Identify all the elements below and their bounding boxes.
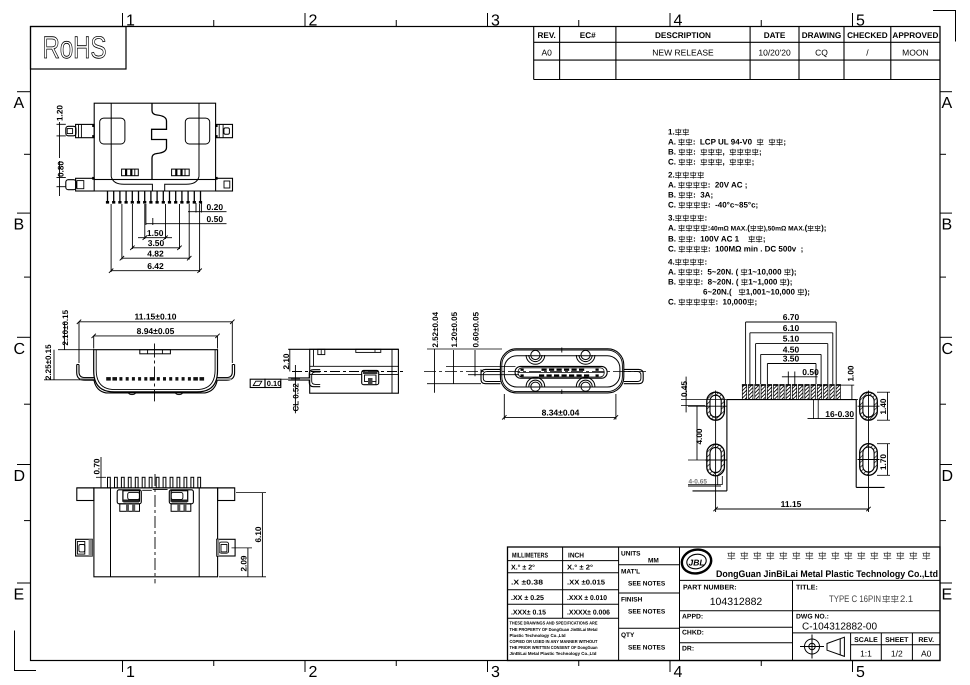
dimension 3.50: [131, 204, 133, 249]
svg-text:. DC 500v: . DC 500v: [760, 245, 797, 254]
front view center line: [154, 344, 156, 402]
bottom view body: [77, 487, 235, 489]
units column: [619, 564, 680, 566]
svg-text::: :: [693, 138, 696, 147]
svg-text:(: (: [747, 224, 750, 233]
footprint oval hole left bottom: [707, 444, 725, 476]
top view solder pins: [107, 191, 109, 202]
svg-text:6.70: 6.70: [783, 312, 800, 322]
svg-text:A.: A.: [668, 224, 676, 233]
svg-text:6.10: 6.10: [254, 526, 263, 542]
svg-text:5~20N: 5~20N: [707, 268, 731, 277]
svg-text:0.45: 0.45: [680, 381, 689, 397]
svg-text:2.10±0.15: 2.10±0.15: [61, 309, 70, 345]
dimension 8.34: [503, 394, 505, 420]
svg-text:);: );: [821, 224, 826, 233]
svg-text:1.20: 1.20: [56, 105, 65, 121]
svg-text:;: ;: [783, 138, 786, 147]
bottom view wing top left: [77, 488, 94, 501]
svg-text:A.: A.: [668, 138, 676, 147]
svg-text:A: A: [942, 95, 953, 112]
svg-text:(: (: [729, 288, 732, 297]
dimension 4.00: [696, 406, 698, 460]
svg-text:DWG NO.:: DWG NO.:: [796, 614, 829, 621]
front view terminals: [106, 377, 111, 381]
svg-text:16-0.30: 16-0.30: [825, 409, 854, 419]
svg-text:DongGuan JinBiLai Metal Plasti: DongGuan JinBiLai Metal Plastic Technolo…: [716, 569, 938, 580]
svg-text:.XX ± 0.25: .XX ± 0.25: [511, 595, 544, 602]
svg-text:1~10,000: 1~10,000: [748, 268, 782, 277]
svg-text:C-104312882-00: C-104312882-00: [802, 622, 877, 633]
bottom view wing top right: [218, 488, 235, 501]
svg-text:.XX ±0.015: .XX ±0.015: [567, 580, 605, 587]
svg-text:D: D: [942, 468, 954, 485]
bottom view tab left: [76, 539, 93, 556]
svg-text:0.50: 0.50: [207, 214, 224, 224]
scale sheet rev cells: [850, 633, 852, 661]
svg-text:D: D: [14, 468, 26, 485]
svg-text:4.: 4.: [668, 258, 675, 267]
svg-text:5.10: 5.10: [783, 334, 800, 344]
dimension 6.70: [746, 321, 837, 323]
mating face left hook: [481, 369, 500, 383]
svg-text:3.: 3.: [668, 214, 675, 223]
dimension CL 0.52: [294, 365, 296, 413]
svg-text:;: ;: [801, 245, 804, 254]
svg-text:104312882: 104312882: [710, 596, 763, 608]
svg-text:0.10: 0.10: [267, 379, 282, 388]
svg-text:A.: A.: [668, 268, 676, 277]
svg-text:11.15: 11.15: [781, 499, 802, 509]
side view solder lead: [288, 378, 310, 380]
svg-text:Plastic Technology Co.,Ltd: Plastic Technology Co.,Ltd: [510, 633, 566, 638]
dimension 11.15 footprint: [716, 508, 869, 510]
zone numbers bottom: [122, 661, 124, 673]
company name Chinese: [727, 552, 735, 560]
svg-text:THE PROPERTY OF DongGuan JinBi: THE PROPERTY OF DongGuan JinBiLai Metal: [510, 627, 598, 632]
top view inner cavity right: [185, 118, 209, 144]
mating face screw bosses: [526, 355, 545, 364]
svg-text:2.09: 2.09: [240, 555, 249, 571]
svg-text:8.34±0.04: 8.34±0.04: [542, 407, 580, 417]
svg-text:0.80: 0.80: [57, 161, 66, 177]
tolerance table: [508, 560, 619, 562]
svg-text:0.60±0.05: 0.60±0.05: [471, 311, 480, 347]
dimension 0.80: [57, 177, 66, 179]
svg-text:A: A: [14, 95, 25, 112]
svg-text:C.: C.: [668, 201, 676, 210]
corner mark bottom-left: [15, 631, 37, 671]
svg-text:4.00: 4.00: [695, 428, 704, 444]
svg-text:1:1: 1:1: [860, 649, 872, 659]
dimension 0.50: [145, 204, 147, 225]
svg-text:3: 3: [491, 13, 500, 30]
svg-text:100V AC 1: 100V AC 1: [700, 235, 739, 244]
dimension 0.70: [100, 457, 102, 487]
svg-text:3.50: 3.50: [783, 354, 800, 364]
dimension 6.42: [110, 204, 112, 272]
svg-text:5: 5: [856, 664, 865, 681]
svg-text:E: E: [14, 587, 25, 604]
bottom view pins: [108, 477, 111, 488]
bottom view tab right: [217, 539, 236, 556]
svg-text:C: C: [942, 341, 954, 358]
svg-text:CQ: CQ: [815, 48, 828, 58]
svg-text:REV.: REV.: [918, 637, 934, 644]
svg-text:;: ;: [756, 201, 759, 210]
mating face tongue: [515, 366, 607, 378]
svg-text:THE PRIOR WRITTEN CONSENT OF D: THE PRIOR WRITTEN CONSENT OF DongGuan: [510, 645, 598, 650]
svg-text:1~1,000: 1~1,000: [748, 278, 778, 287]
svg-text:JinBiLai Metal Plastic Technol: JinBiLai Metal Plastic Technology Co.,Lt…: [510, 651, 597, 656]
svg-text:X.° ± 2°: X.° ± 2°: [511, 565, 535, 572]
svg-text:UNITS: UNITS: [621, 551, 641, 558]
svg-text:C.: C.: [668, 298, 676, 307]
svg-text:2.1: 2.1: [900, 594, 913, 605]
svg-text:1.70: 1.70: [879, 454, 888, 470]
corner mark top-right: [933, 11, 956, 42]
svg-text:. (: . (: [731, 278, 738, 287]
front view shell: [94, 350, 218, 392]
svg-text:;: ;: [790, 278, 793, 287]
svg-text:MILLIMETERS: MILLIMETERS: [512, 553, 548, 560]
svg-text:B.: B.: [668, 278, 676, 287]
svg-text:6~20N.: 6~20N.: [703, 288, 729, 297]
zone letters right: [940, 91, 952, 93]
svg-text:INCH: INCH: [568, 553, 584, 560]
svg-text:2.10: 2.10: [282, 353, 291, 369]
svg-text:1.00: 1.00: [847, 365, 856, 381]
dimension 1.00: [840, 384, 854, 386]
top view connector body: [94, 103, 215, 179]
front view top notch: [140, 350, 171, 354]
svg-text:A0: A0: [541, 48, 552, 58]
top view upper wing left: [76, 124, 95, 137]
svg-text:8.94±0.05: 8.94±0.05: [137, 326, 175, 336]
svg-text:;: ;: [759, 148, 762, 157]
footprint oval hole left top: [707, 392, 725, 420]
svg-text:1.50: 1.50: [147, 228, 164, 238]
dimension 1.40: [877, 391, 890, 393]
svg-text:A.: A.: [668, 181, 676, 190]
dimension 1.70: [877, 443, 890, 445]
svg-text:MOON: MOON: [902, 48, 928, 58]
dimension 2.25: [53, 350, 55, 380]
svg-text:B.: B.: [668, 148, 676, 157]
svg-text::: :: [693, 158, 696, 167]
svg-text:B: B: [942, 217, 953, 234]
flatness callout 0.10: [250, 379, 265, 387]
svg-text:SEE NOTES: SEE NOTES: [628, 609, 666, 616]
svg-text:3.50: 3.50: [148, 238, 165, 248]
svg-text:1/2: 1/2: [891, 649, 903, 659]
side view top notches: [318, 349, 325, 354]
svg-text:.X ±0.38: .X ±0.38: [511, 580, 543, 587]
svg-text:;: ;: [754, 298, 757, 307]
dimension 5.10: [756, 343, 828, 345]
svg-text:1.20±0.05: 1.20±0.05: [450, 311, 459, 347]
svg-text:QTY: QTY: [621, 632, 635, 639]
svg-text::: :: [704, 214, 707, 223]
svg-text:6.42: 6.42: [147, 261, 164, 271]
dimension 2.09: [247, 548, 249, 577]
svg-text::: :: [693, 191, 696, 200]
footprint center lines through holes: [715, 391, 717, 513]
top view contact window left: [122, 169, 139, 176]
RoHS box: [31, 27, 127, 70]
svg-text:50mΩ MAX.: 50mΩ MAX.: [768, 226, 805, 233]
svg-text:JBL: JBL: [688, 558, 704, 568]
svg-text:8~20N: 8~20N: [708, 278, 732, 287]
svg-text:X.° ± 2°: X.° ± 2°: [567, 565, 593, 572]
svg-text:SHEET: SHEET: [885, 637, 909, 644]
svg-text:1.40: 1.40: [879, 398, 888, 414]
front view right leg: [217, 365, 232, 378]
svg-text:1: 1: [126, 13, 135, 30]
svg-text:COPIED OR USED IN ANY MANNER W: COPIED OR USED IN ANY MANNER WITHOUT: [510, 639, 598, 644]
dimension 11.15: [79, 321, 232, 323]
svg-text:0.50: 0.50: [802, 367, 819, 377]
dimension 2.52: [427, 348, 502, 350]
footprint oval hole right bottom: [860, 444, 878, 476]
svg-text:2: 2: [309, 664, 318, 681]
svg-text:2.: 2.: [668, 171, 675, 180]
APPD CHKD DR rows: [680, 626, 793, 628]
svg-text:B.: B.: [668, 235, 676, 244]
footprint outline: [693, 400, 885, 491]
bottom view latch right: [169, 490, 193, 504]
top view inner cavity left: [100, 118, 125, 144]
svg-text:APPROVED: APPROVED: [892, 31, 938, 40]
svg-text::: :: [693, 235, 696, 244]
bottom view center line: [154, 474, 156, 583]
front view left leg: [79, 365, 94, 378]
svg-text:2.25±0.15: 2.25±0.15: [44, 344, 53, 380]
top view flange: [111, 177, 199, 192]
svg-text:;: ;: [752, 158, 755, 167]
footprint outline step left: [688, 485, 721, 487]
svg-text:40mΩ MAX.: 40mΩ MAX.: [710, 226, 747, 233]
svg-text:10,000: 10,000: [723, 298, 748, 307]
svg-text:RoHS: RoHS: [43, 30, 107, 65]
svg-text:,: ,: [723, 158, 725, 167]
zone numbers top: [122, 13, 124, 27]
svg-text:DRAWING: DRAWING: [802, 31, 842, 40]
svg-text:0.70: 0.70: [93, 458, 102, 474]
tongue contacts: [521, 369, 524, 371]
svg-text:;: ;: [807, 288, 810, 297]
mating face right hook: [624, 369, 643, 383]
dimension 4.50: [761, 353, 821, 355]
svg-text::: :: [701, 278, 704, 287]
svg-text:2: 2: [309, 13, 318, 30]
svg-text:10/20'20: 10/20'20: [758, 48, 791, 58]
svg-text:(: (: [805, 224, 808, 233]
svg-text:DESCRIPTION: DESCRIPTION: [655, 31, 711, 40]
front view bottom skirt: [94, 380, 217, 393]
bottom view latch left: [117, 490, 141, 504]
side view inner contact: [362, 370, 379, 384]
svg-text::: :: [693, 148, 696, 157]
svg-text:SEE NOTES: SEE NOTES: [628, 645, 666, 652]
dimension 2.10 side: [289, 349, 291, 371]
svg-text:REV.: REV.: [537, 31, 555, 40]
svg-text:.XXX ± 0.010: .XXX ± 0.010: [567, 595, 607, 602]
svg-text::: :: [708, 181, 711, 190]
svg-text:LCP UL 94-V0: LCP UL 94-V0: [700, 138, 753, 147]
svg-text:MAT'L: MAT'L: [621, 569, 640, 576]
svg-text:0.20: 0.20: [207, 202, 224, 212]
footprint pads 16x: [742, 384, 841, 399]
svg-text:A0: A0: [921, 649, 932, 659]
company logo JBL: [679, 547, 681, 661]
svg-text:DATE: DATE: [764, 31, 786, 40]
top view center seam: [152, 103, 167, 179]
svg-text::: :: [715, 298, 718, 307]
svg-text:C.: C.: [668, 158, 676, 167]
svg-text::: :: [708, 245, 711, 254]
svg-text::: :: [704, 258, 707, 267]
svg-text:4: 4: [674, 664, 683, 681]
svg-text:20V AC: 20V AC: [715, 181, 743, 190]
svg-text:1: 1: [126, 664, 135, 681]
svg-text:TYPE C 16PIN: TYPE C 16PIN: [829, 594, 881, 605]
dimension 8.94: [94, 335, 218, 337]
dimension 6.10: [750, 332, 833, 334]
svg-text:.XXXX± 0.006: .XXXX± 0.006: [567, 610, 610, 617]
svg-text:E: E: [942, 587, 953, 604]
svg-text:B: B: [14, 217, 25, 234]
svg-text:C.: C.: [668, 245, 676, 254]
svg-text:4.82: 4.82: [147, 248, 164, 258]
svg-text:-40°c~85°c: -40°c~85°c: [715, 201, 756, 210]
dimension 3.50: [767, 363, 816, 365]
svg-text:APPD:: APPD:: [682, 614, 703, 621]
title block: [508, 547, 941, 661]
svg-text:3A: 3A: [700, 191, 710, 200]
svg-text:FINISH: FINISH: [621, 597, 643, 604]
dimension 6.10 bottom: [261, 493, 263, 577]
svg-text:EC#: EC#: [580, 31, 596, 40]
dimension 1.50: [144, 204, 146, 239]
third angle projection symbol: [800, 635, 844, 659]
dimension 1.20: [57, 123, 66, 125]
svg-text:11.15±0.10: 11.15±0.10: [134, 312, 176, 322]
svg-text:1,001~10,000: 1,001~10,000: [746, 288, 796, 297]
side view center line: [292, 371, 403, 373]
svg-text:;: ;: [710, 191, 713, 200]
top view lower wing right: [216, 178, 233, 191]
svg-text:;: ;: [745, 181, 748, 190]
top view contact window right: [172, 169, 190, 176]
svg-text::: :: [700, 268, 703, 277]
top view upper wing right: [216, 124, 233, 137]
svg-text:B.: B.: [668, 191, 676, 200]
bottom view center lines small: [142, 489, 152, 491]
dimension 2.10 front: [64, 322, 66, 350]
svg-text:CHECKED: CHECKED: [847, 31, 888, 40]
svg-text:SCALE: SCALE: [854, 637, 878, 644]
side view body: [288, 348, 398, 350]
mating face outer shell: [500, 349, 623, 393]
side view horizontal strip: [310, 365, 399, 367]
dimension 0.20: [195, 203, 197, 213]
svg-text:TITLE:: TITLE:: [796, 585, 818, 592]
footprint oval hole right top: [860, 392, 878, 420]
svg-text:THESE DRAWINGS AND SPECIFICATI: THESE DRAWINGS AND SPECIFICATIONS ARE: [510, 621, 598, 626]
svg-text:DR:: DR:: [682, 646, 694, 653]
mating face center line: [424, 371, 648, 373]
svg-text:1.: 1.: [668, 128, 675, 137]
dimension 16-0.30: [813, 400, 815, 419]
svg-text::: :: [708, 201, 711, 210]
svg-text:PART NUMBER:: PART NUMBER:: [683, 585, 737, 592]
svg-text:MM: MM: [648, 558, 659, 565]
dimension 0.50 footprint: [782, 376, 818, 378]
svg-text:. (: . (: [731, 268, 738, 277]
part number cell: [680, 610, 941, 612]
dimension 0.45: [685, 377, 687, 413]
svg-text:6.10: 6.10: [783, 323, 800, 333]
svg-text:;: ;: [794, 268, 797, 277]
dimension 0.60: [468, 374, 519, 376]
dimension 1.20 face: [446, 365, 516, 367]
svg-text:NEW RELEASE: NEW RELEASE: [652, 48, 714, 58]
svg-text:C: C: [14, 341, 26, 358]
svg-text:.XXX± 0.15: .XXX± 0.15: [511, 610, 546, 617]
dimension 4.82: [121, 204, 123, 260]
svg-text:SEE NOTES: SEE NOTES: [628, 581, 666, 588]
svg-text:,: ,: [723, 148, 725, 157]
svg-text:CHKD:: CHKD:: [682, 630, 704, 637]
svg-text:;: ;: [763, 235, 766, 244]
zone letters left: [17, 91, 31, 93]
revision table: [533, 27, 535, 80]
svg-text:CL 0.52: CL 0.52: [292, 383, 301, 412]
svg-text:2.52±0.04: 2.52±0.04: [431, 311, 440, 347]
svg-text:100MΩ min: 100MΩ min: [715, 245, 758, 254]
side view front tab: [309, 370, 320, 387]
top view lower wing left: [76, 178, 95, 191]
svg-text:3: 3: [491, 664, 500, 681]
